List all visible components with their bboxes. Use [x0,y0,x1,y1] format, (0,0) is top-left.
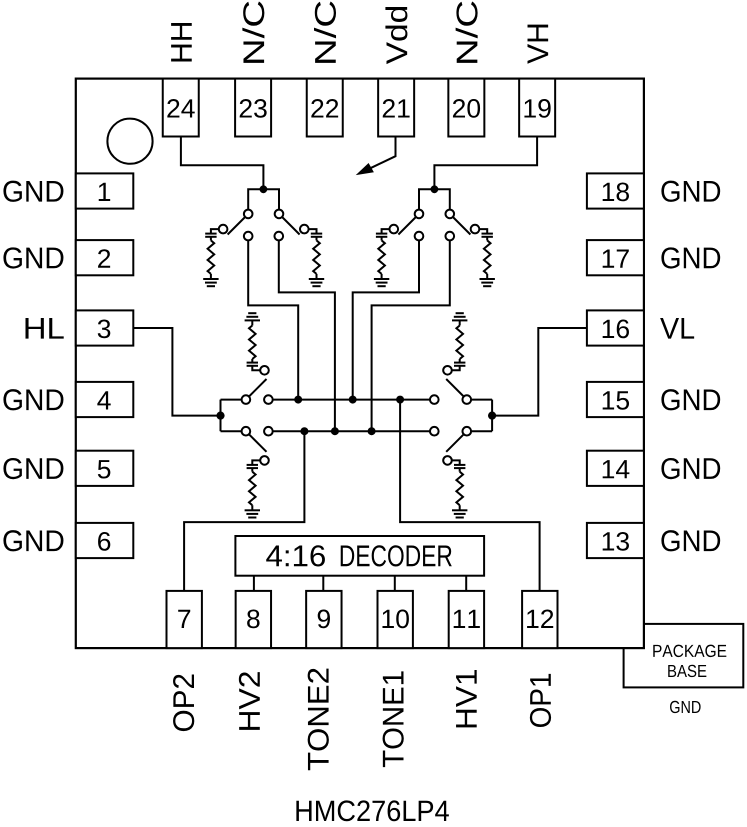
title HMC276LP4 [296,800,448,821]
wire capacitor to resistor B2 (SW2 termination) [316,237,318,241]
label GND pin 1 [3,181,63,202]
junction dot lower rail OP2 [300,427,308,435]
resistor B4 (SW4 termination) [484,240,491,274]
wire resistor to ground B3 (SW3 termination) [381,274,383,279]
ground T7 (SW7 termination) [452,313,467,320]
pin 9 box [306,591,341,648]
label Vdd pin 21 [385,7,407,64]
label VH pin 19 [528,25,549,64]
capacitor T7 (SW7 termination) [454,363,465,366]
pin 10 number [382,609,408,628]
contact E1 [242,395,251,404]
switch arm SW2 [282,217,300,235]
pin 18 box [587,173,644,208]
wire pin 3 (HL) to node L [133,328,221,416]
wire D1 to upper rail [248,240,298,399]
contact E3 [430,395,439,404]
contact circle T7 (SW7 termination) [443,366,452,375]
pin 3 box [76,310,134,345]
left matrix bar [220,400,222,432]
contact A2 (HH right pole) [275,210,284,219]
ground T6 (SW6 termination) [245,510,260,517]
label GND pin 6 [3,530,63,551]
package base label GND [670,701,701,713]
junction dot upper rail VH [349,396,357,404]
contact circle T6 (SW6 termination) [260,456,269,465]
contact F4 [463,427,472,436]
pin 15 number [603,391,629,409]
contact A3 (VH left pole) [415,210,424,219]
upper rail left segment [221,399,242,401]
contact A4 (VH right pole) [446,210,455,219]
wire HH splitter bar [248,189,279,209]
pin 17 number [603,249,629,267]
contact F2 [264,427,273,436]
pin 10 box [378,591,413,648]
ground B3 (SW3 termination) [374,279,389,286]
pin 9 number [318,609,330,628]
wire resistor to ground B4 (SW4 termination) [486,274,488,279]
upper rail center segment [273,399,430,401]
capacitor T6 (SW6 termination) [247,465,258,468]
pin 12 number [527,609,553,628]
pin 4 box [76,382,134,417]
wire T6 (SW6 termination) to capacitor [252,460,260,465]
pin 5 box [76,451,134,486]
pin 8 box [236,591,271,648]
contact E2 [264,395,273,404]
label HL pin 3 [25,318,63,339]
label GND pin 14 [661,458,720,479]
ground T5 (SW5 termination) [245,313,260,320]
pin 24 box [163,79,199,137]
contact D2 (HH to lower rail) [275,232,284,241]
pin 18 number [603,182,629,201]
wire B1 (SW1 termination) to capacitor [211,229,219,234]
ground B2 (SW2 termination) [309,279,324,286]
wire D4 to lower rail [372,240,450,431]
contact D3 (VH to upper rail) [415,232,424,241]
wire D2 to lower rail [279,240,335,431]
lower rail center segment [273,430,430,432]
pin 12 box [522,591,557,648]
pin 8 number [247,609,259,628]
contact F1 [242,427,251,436]
lower rail right segment [471,430,492,432]
label TONE1 pin 10 [383,671,404,767]
contact A1 (HH left pole) [244,210,253,219]
node VH junction dot [431,185,439,193]
label VL pin 16 [660,318,694,339]
resistor T8 (SW8 termination) [456,472,463,506]
pin 7 box [167,591,202,648]
label HV1 pin 11 [456,670,477,727]
wire D3 to upper rail [353,240,419,399]
wire capacitor to resistor T7 (SW7 termination) [459,359,461,363]
wire VH splitter bar [419,189,450,209]
wire resistor to ground T5 (SW5 termination) [251,320,253,325]
ground B4 (SW4 termination) [480,279,495,286]
label HV2 pin 8 [239,672,260,730]
pin 16 number [603,319,629,338]
contact circle T5 (SW5 termination) [260,366,269,375]
switch arm SW8 [446,434,464,452]
switch arm SW4 [453,217,471,235]
pin 11 box [449,591,484,648]
pin 23 number [240,99,267,118]
wire resistor to ground T7 (SW7 termination) [459,320,461,325]
pin 22 box [307,79,343,137]
wire B2 (SW2 termination) to capacitor [309,229,317,234]
pin 20 number [453,99,480,118]
capacitor T5 (SW5 termination) [247,363,258,366]
pin 21 box [378,79,414,137]
pin 2 number [98,249,110,268]
wire decoder to pin 8 [253,576,255,591]
pin 1 number [99,183,110,201]
wire resistor to ground B1 (SW1 termination) [210,274,212,279]
wire capacitor to resistor T6 (SW6 termination) [251,468,253,472]
contact D4 (VH to lower rail) [446,232,455,241]
lower rail left segment [221,430,242,432]
wire pin 19 (VH) to node VH [434,137,537,190]
label GND pin 18 [661,181,720,202]
pin 17 box [587,240,644,275]
pin 19 number [524,99,550,118]
capacitor T8 (SW8 termination) [454,465,465,468]
wire capacitor to resistor T8 (SW8 termination) [459,468,461,472]
pin 20 box [448,79,484,137]
resistor B1 (SW1 termination) [208,240,215,274]
pin 1 indicator circle [107,119,152,164]
contact circle T8 (SW8 termination) [443,456,452,465]
pin 15 box [587,382,644,417]
pin 11 number [454,610,480,628]
label OP2 pin 7 [173,674,194,731]
wire resistor to ground T6 (SW6 termination) [251,505,253,510]
contact circle B4 (SW4 termination) [471,225,480,234]
wire T7 (SW7 termination) to capacitor [452,366,460,371]
label GND pin 2 [3,247,63,268]
pin 24 number [167,99,194,118]
wire decoder to pin 10 [394,576,396,591]
wire T8 (SW8 termination) to capacitor [452,460,460,465]
capacitor B2 (SW2 termination) [311,234,322,237]
decoder label DECODER [341,545,452,566]
resistor T6 (SW6 termination) [249,472,256,506]
contact circle B1 (SW1 termination) [219,225,228,234]
node HH junction dot [260,185,268,193]
pin 2 box [76,240,134,275]
pin 16 box [587,310,644,345]
ground B1 (SW1 termination) [203,279,218,286]
node L junction dot [216,412,224,420]
label GND pin 15 [661,389,720,410]
pin 14 number [603,460,630,478]
pin 13 box [587,523,644,558]
wire OP2 lower rail to pin 7 [184,431,304,591]
switch arm SW5 [249,379,267,397]
capacitor B1 (SW1 termination) [205,234,216,237]
resistor B2 (SW2 termination) [313,240,320,274]
pin 23 box [235,79,271,137]
package base box [624,624,744,688]
wire capacitor to resistor T5 (SW5 termination) [251,359,253,363]
pin 19 box [519,79,555,137]
junction dot lower rail VH [368,427,376,435]
decoder U1 box [235,536,484,576]
capacitor B3 (SW3 termination) [376,234,387,237]
wire pin 24 (HH) to node HH [181,137,264,190]
pin 14 box [587,451,644,486]
label N/C pin 23 [242,1,264,62]
arrowhead Vdd [358,164,373,174]
wire resistor to ground T8 (SW8 termination) [459,505,461,510]
label GND pin 4 [3,389,63,410]
wire pin 16 (VL) to node R [492,328,587,416]
pin 1 box [76,173,134,208]
wire capacitor to resistor B4 (SW4 termination) [486,237,488,241]
label GND pin 5 [3,458,63,479]
switch arm SW7 [446,379,464,397]
label N/C pin 20 [456,1,478,62]
switch arm SW3 [398,217,416,235]
wire decoder to pin 9 [322,576,324,591]
resistor B3 (SW3 termination) [378,240,385,274]
junction dot upper rail OP1 [396,396,404,404]
junction dot lower rail HH [331,427,339,435]
label GND pin 13 [661,530,720,551]
pin 21 number [383,99,410,118]
pin 22 number [311,99,338,118]
junction dot upper rail HH [294,396,302,404]
pin 5 number [98,460,111,478]
wire capacitor to resistor B3 (SW3 termination) [381,237,383,241]
wire decoder to pin 11 [465,576,467,591]
label HH pin 24 [171,23,192,61]
ground T8 (SW8 termination) [452,510,467,517]
pin 6 box [76,523,134,558]
label OP1 pin 12 [530,674,551,727]
package outline [76,79,644,649]
contact F3 [430,427,439,436]
resistor T7 (SW7 termination) [456,326,463,360]
label GND pin 17 [661,247,720,268]
wire pin 21 Vdd [369,136,395,169]
contact circle B2 (SW2 termination) [300,225,309,234]
wire OP1 upper rail to pin 12 [400,400,539,591]
label TONE2 pin 9 [308,669,329,771]
wire B3 (SW3 termination) to capacitor [382,229,390,234]
contact circle B3 (SW3 termination) [390,225,399,234]
wire capacitor to resistor B1 (SW1 termination) [210,237,212,241]
label N/C pin 22 [314,1,336,62]
resistor T5 (SW5 termination) [249,326,256,360]
pin 3 number [98,319,111,338]
contact E4 [463,395,472,404]
node R junction dot [488,412,496,420]
right matrix bar [491,400,493,432]
pin 13 number [603,532,629,551]
decoder label 4:16 [266,545,325,566]
pin 6 number [98,532,110,551]
package base label BASE [668,665,706,677]
package base label PACKAGE [653,645,726,657]
upper rail right segment [471,399,492,401]
contact D1 (HH to upper rail) [244,232,253,241]
pin 4 number [97,391,110,409]
wire resistor to ground B2 (SW2 termination) [316,274,318,279]
switch arm SW1 [228,217,246,235]
pin 7 number [178,610,190,628]
switch arm SW6 [249,434,267,452]
wire B4 (SW4 termination) to capacitor [479,229,487,234]
wire T5 (SW5 termination) to capacitor [252,366,260,371]
capacitor B4 (SW4 termination) [482,234,493,237]
